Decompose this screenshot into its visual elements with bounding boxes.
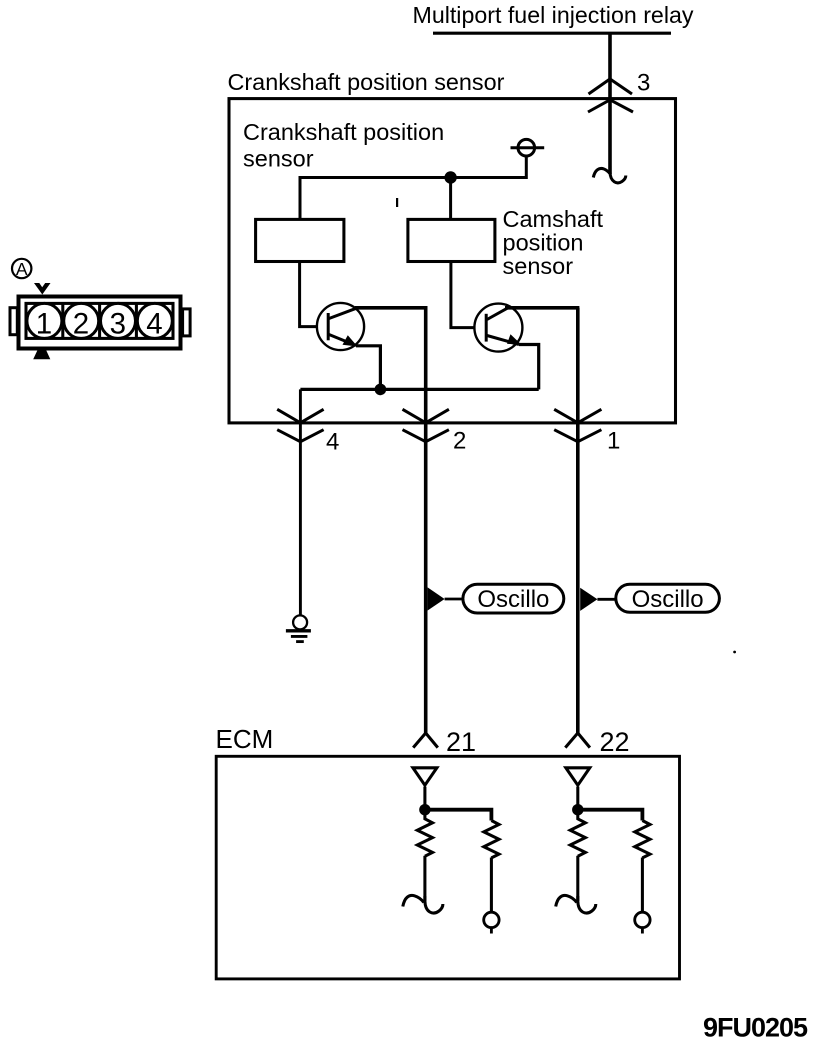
svg-text:position: position [503, 230, 584, 256]
wire: element E1 to Q1 base [300, 262, 317, 327]
resistor R2 [484, 821, 499, 858]
wire: emitter bus [300, 388, 538, 391]
junction dot 22 [572, 804, 583, 815]
resistor R4 [635, 821, 650, 858]
box: ECM outline [216, 756, 679, 979]
svg-text:21: 21 [446, 727, 476, 757]
svg-text:sensor: sensor [243, 146, 314, 172]
resistor R3 [570, 813, 585, 856]
transistor Q2 [474, 304, 522, 352]
wire: element E2 to Q2 base [451, 262, 475, 328]
wire: dot 21 to pull-up branch [425, 810, 492, 821]
wire: triangle 22 to dot [576, 787, 579, 806]
wire: Q2 emitter down [519, 345, 539, 390]
wire hook below R1 [403, 895, 443, 913]
svg-text:1: 1 [36, 308, 52, 341]
connector A: outer housing [19, 297, 181, 349]
wire: from relay down to connector 3 [608, 33, 612, 174]
sensor element E2 (camshaft pickup) [408, 219, 495, 261]
ECM input triangle 22 [566, 768, 590, 785]
junction: supply rail dot [444, 171, 456, 183]
connector A: pin 1 [27, 303, 62, 338]
wire: connector 2 vertical [424, 308, 428, 733]
connector A: inner housing [26, 303, 173, 338]
svg-text:4: 4 [326, 429, 339, 456]
svg-text:Crankshaft position: Crankshaft position [243, 119, 444, 145]
svg-text:Crankshaft position sensor: Crankshaft position sensor [228, 69, 505, 95]
wire: Q1 emitter to junction [356, 346, 380, 390]
connector C4 [277, 409, 323, 423]
junction: emitter bus dot [375, 384, 387, 396]
wire below R4 [641, 858, 644, 913]
connector C22 fork [565, 733, 590, 748]
connector A: top latch [34, 283, 51, 295]
terminal: circle terminal below R4 [635, 912, 650, 927]
svg-text:3: 3 [110, 308, 126, 341]
connector A: pin 3 [101, 303, 136, 338]
sensor element E1 (crankshaft pickup) [256, 219, 344, 261]
wire: Q2 collector bus [505, 306, 579, 310]
ECM input triangle 21 [413, 768, 437, 785]
svg-text:Oscillo: Oscillo [477, 586, 549, 613]
terminal: circle terminal below R2 [484, 912, 499, 927]
wire: connector 1 vertical [576, 308, 580, 733]
wire to left oscillo [445, 598, 463, 601]
speck [733, 651, 736, 654]
wire below R1 [423, 856, 426, 901]
svg-text:1: 1 [607, 428, 620, 455]
connector A: cell dividers [63, 303, 137, 338]
connector C3 lower half [588, 100, 633, 112]
wire below R3 [576, 856, 579, 901]
oscillo bubble left [463, 584, 564, 613]
ground symbol [293, 615, 307, 629]
svg-text:4: 4 [146, 308, 162, 341]
svg-text:2: 2 [453, 428, 466, 455]
speck [396, 198, 398, 207]
connector A: bottom latch [33, 351, 50, 360]
transistor Q1 [317, 303, 364, 350]
svg-text:3: 3 [637, 70, 650, 97]
wire: triangle 21 to dot [423, 787, 426, 806]
connector C21 fork [413, 733, 438, 748]
connector A: right tab [183, 309, 191, 336]
svg-text:Multiport fuel injection relay: Multiport fuel injection relay [413, 2, 694, 28]
svg-text:22: 22 [600, 727, 630, 757]
box: Crankshaft position sensor outline [229, 99, 676, 423]
svg-text:Oscillo: Oscillo [632, 586, 704, 613]
connector A callout: circled A [12, 259, 31, 278]
wire: connector 4 vertical to ground [299, 389, 302, 616]
svg-text:ECM: ECM [216, 724, 274, 754]
svg-text:9FU0205: 9FU0205 [703, 1013, 808, 1043]
svg-text:A: A [16, 259, 28, 279]
junction dot 21 [419, 804, 430, 815]
connector C2 [403, 409, 449, 423]
wire hook: stub end below connector 3 [593, 166, 626, 183]
wire to right oscillo [597, 598, 616, 601]
svg-text:Camshaft: Camshaft [503, 206, 604, 232]
test point arrow (right oscillo) [580, 588, 597, 611]
wire below R2 [490, 858, 493, 913]
oscillo bubble right [616, 584, 720, 612]
test point arrow (left oscillo) [428, 587, 445, 610]
wire: Q1 collector bus [355, 306, 428, 310]
svg-text:sensor: sensor [503, 253, 574, 279]
connector A: pin 2 [64, 303, 99, 338]
wire: relay bus underline [433, 32, 671, 35]
terminal: circle terminal at top [518, 139, 535, 156]
wire: supply rail inside box [300, 156, 526, 220]
svg-text:2: 2 [73, 308, 89, 341]
wire hook below R3 [556, 895, 596, 913]
connector A: left tab [10, 308, 17, 335]
resistor R1 [417, 813, 432, 856]
connector C1 [554, 409, 601, 423]
wire: dot to camshaft element [449, 178, 452, 220]
connector C3 upper half [589, 79, 633, 94]
connector A: pin 4 [137, 303, 172, 338]
wire: dot 22 to pull-up branch [578, 810, 643, 821]
